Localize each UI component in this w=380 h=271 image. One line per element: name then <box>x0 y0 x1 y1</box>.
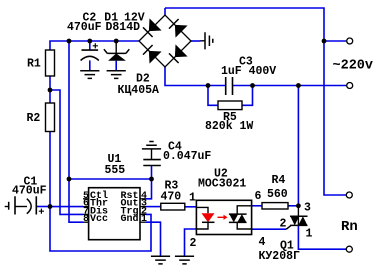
pin 7 Dis <box>83 213 89 215</box>
svg-text:Vcc: Vcc <box>90 214 108 225</box>
svg-text:2: 2 <box>190 237 197 250</box>
wire C4 lower lead <box>151 166 153 180</box>
diode D2 bottom-right <box>175 44 188 57</box>
wire node A to 555 pin 7 Dis <box>50 90 83 214</box>
wire C3 right to ~220v bottom terminal <box>233 85 346 87</box>
ground (opto pin2) <box>175 256 194 264</box>
pin 3 Out <box>140 206 146 208</box>
triac Q1 KY208 <box>297 206 299 217</box>
junction node R4/Q1 anode (pin 3) <box>296 203 301 208</box>
wire C2 top lead <box>89 41 91 50</box>
diode D2 top-left <box>149 18 162 31</box>
bridge rectifier D2 frame <box>139 15 191 67</box>
resistor R4 <box>262 203 288 209</box>
wire down to 555 pin 4 Rst <box>146 179 152 199</box>
wire Rst/C4 net horizontal <box>69 178 152 180</box>
junction node C1/Thr/Trg <box>48 204 53 209</box>
wire 555 pin 1 Gnd to ground <box>146 222 161 256</box>
wire bridge top stub <box>164 8 166 15</box>
junction node D1 / top wire <box>114 39 119 44</box>
opto LED leads <box>196 207 208 229</box>
svg-text:КЦ405А: КЦ405А <box>118 84 160 97</box>
pin 4 Rst <box>140 198 146 200</box>
ground (D1) <box>107 71 126 79</box>
op-amp/timer U1 555 box <box>89 188 140 240</box>
wire opto pin 2 to ground <box>185 229 197 256</box>
wire bridge bottom to C3 left <box>165 67 225 86</box>
svg-text:555: 555 <box>105 164 126 177</box>
svg-text:4: 4 <box>259 236 266 249</box>
svg-text:560: 560 <box>267 188 288 201</box>
wire D1 bottom lead to ground <box>115 61 117 71</box>
svg-text:470uF: 470uF <box>67 21 102 34</box>
svg-text:0.047uF: 0.047uF <box>163 150 211 163</box>
pin 6 Thr <box>83 206 89 208</box>
diode D2 top-right <box>175 25 188 38</box>
resistor R2 <box>46 103 55 132</box>
wire R2 bottom down along bottom to 555 pin 2 Trg <box>50 132 151 252</box>
pin 2 Trg <box>140 213 146 215</box>
pin 1 Gnd <box>140 221 146 223</box>
wire top bus branch down to 555 pin 8 Vcc <box>69 41 83 222</box>
svg-text:R4: R4 <box>272 174 286 187</box>
wire R1 bottom to node A <box>49 76 51 103</box>
wire C1 plus lead to node <box>36 206 50 208</box>
ground (C4, pointing up) <box>142 142 161 149</box>
opto phototriac <box>237 206 251 229</box>
junction node Rst net left <box>67 177 72 182</box>
svg-text:2: 2 <box>280 218 287 231</box>
wire R5 left bend <box>208 86 218 106</box>
terminal ~220v bottom <box>347 83 353 89</box>
wire R4 to node 3 <box>288 205 298 207</box>
capacitor C4 to ground <box>151 149 153 160</box>
svg-text:Gnd: Gnd <box>121 213 139 225</box>
junction node C3 left <box>206 83 211 88</box>
wire top bus from bridge top to right side and down to Rn top terminal <box>165 8 346 195</box>
svg-text:КУ208Г: КУ208Г <box>259 250 301 263</box>
opto arrow (red) <box>218 216 224 218</box>
ground (bridge right, sideways) <box>201 40 206 42</box>
wire R5 right bend <box>242 86 253 106</box>
wire opto pin 4 to Q1 gate <box>252 228 287 230</box>
capacitor C1 (electrolytic, horizontal) <box>5 206 9 208</box>
svg-text:D814D: D814D <box>106 21 141 34</box>
wire to ~220v top terminal <box>324 40 346 42</box>
pin 8 Vcc <box>83 221 89 223</box>
wire left bus from bridge left vertex to R1 top <box>50 41 139 50</box>
capacitor C2 (electrolytic to ground) <box>81 50 99 60</box>
svg-text:R2: R2 <box>27 112 41 125</box>
diode D2 bottom-left <box>149 51 162 64</box>
junction node Vcc bus / top wire <box>67 39 72 44</box>
junction node C2 / top wire <box>87 39 92 44</box>
ground (C2) <box>80 71 99 79</box>
wire opto pin 6 to R4 <box>252 205 262 207</box>
capacitor C3 <box>226 77 233 95</box>
svg-text:6: 6 <box>255 190 262 203</box>
terminal Rn bottom <box>346 246 352 252</box>
wire bridge right vertex to ground <box>191 40 201 42</box>
svg-text:Rn: Rn <box>341 219 358 235</box>
pin 5 Ctl <box>83 198 89 200</box>
ground (555 pin1) <box>151 256 170 264</box>
resistor R3 <box>161 203 185 210</box>
svg-text:1: 1 <box>189 192 196 205</box>
svg-text:1: 1 <box>141 214 147 225</box>
wire 555 pin 3 Out to R3 <box>146 206 161 208</box>
svg-text:3: 3 <box>304 202 311 215</box>
junction node R1/R2 divider <box>48 88 53 93</box>
opto LED (red) <box>202 213 215 222</box>
svg-text:~220v: ~220v <box>333 58 374 73</box>
wire Q1 bottom lead to Rn bottom terminal <box>298 225 346 249</box>
terminal Rn top <box>346 192 352 198</box>
junction node mains top terminal <box>322 39 327 44</box>
junction node C4/Rst <box>149 177 154 182</box>
terminal ~220v top <box>347 38 353 44</box>
svg-text:1: 1 <box>306 228 313 241</box>
junction node mains / Q1 branch <box>296 83 301 88</box>
resistor R1 <box>46 50 55 76</box>
svg-text:R1: R1 <box>27 58 41 71</box>
svg-text:470: 470 <box>161 191 182 204</box>
svg-text:8: 8 <box>83 214 89 225</box>
optocoupler U2 MOC3021 box <box>196 200 251 234</box>
svg-text:1uF 400V: 1uF 400V <box>221 65 276 78</box>
wire C2 bottom lead to ground <box>89 60 91 70</box>
svg-text:820k 1W: 820k 1W <box>205 120 253 133</box>
Q1 gate lead <box>286 225 291 229</box>
zener diode D1 D814D <box>115 41 117 53</box>
svg-text:MOC3021: MOC3021 <box>198 178 246 191</box>
wire from mains wire down to R4/Q1 node <box>297 86 299 206</box>
junction node C3 right <box>250 83 255 88</box>
wire R3 to opto pin 1 <box>185 206 197 208</box>
resistor R5 <box>218 101 242 110</box>
svg-text:470uF: 470uF <box>12 185 47 198</box>
wire C1 node to 555 pin 6 Thr <box>50 206 83 208</box>
